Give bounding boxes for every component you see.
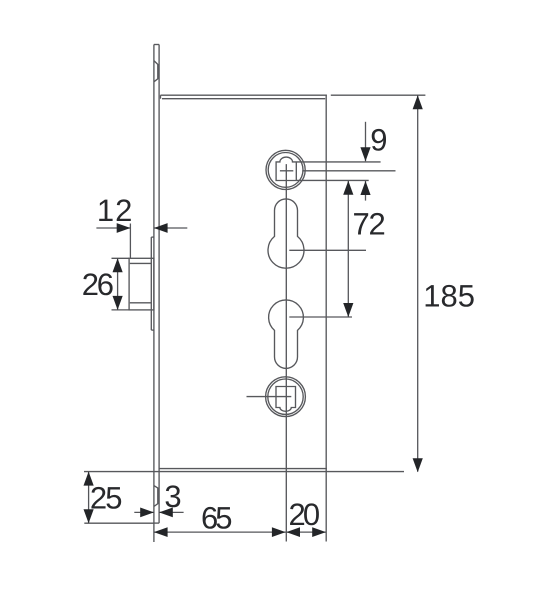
svg-text:9: 9 (370, 123, 387, 158)
svg-text:72: 72 (352, 207, 385, 242)
svg-text:3: 3 (164, 479, 181, 514)
svg-text:185: 185 (423, 279, 475, 314)
svg-text:65: 65 (201, 501, 233, 536)
svg-text:25: 25 (90, 480, 123, 515)
svg-text:26: 26 (82, 267, 114, 302)
svg-text:12: 12 (97, 193, 133, 228)
svg-text:20: 20 (289, 497, 321, 532)
